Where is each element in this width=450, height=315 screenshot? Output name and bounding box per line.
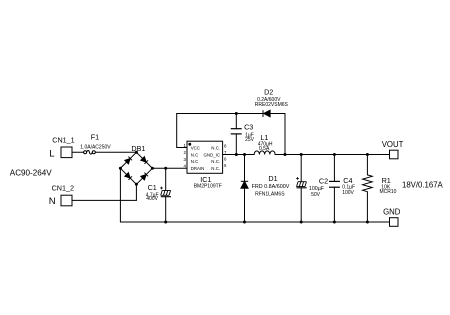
wire D2 anode to right corner [270,113,285,115]
wire C4 top lead [333,155,335,182]
svg-text:C1: C1 [148,183,157,192]
junction C4 top [333,153,336,156]
svg-text:0.5A: 0.5A [259,146,270,152]
capacitor C2 (electrolytic) [297,182,307,188]
inductor L1 [254,151,275,155]
junction R1 top [366,153,369,156]
svg-text:1.0A/AC250V: 1.0A/AC250V [80,144,111,150]
wire DB1 minus: left vertex down [119,168,121,222]
junction VCC / C3 / D2 node [235,112,238,115]
wire L: fuse F1 to DB1 top vertex [95,151,136,153]
C1 plus sign [160,187,163,190]
svg-text:25V: 25V [245,137,255,143]
wire L: CN1_1 to fuse F1 [72,151,84,153]
svg-text:RRE02VSM6S: RRE02VSM6S [255,102,289,108]
svg-text:N: N [49,196,56,207]
svg-text:50V: 50V [311,192,321,198]
junction D1 top [243,153,246,156]
svg-text:VOUT: VOUT [382,140,404,149]
svg-text:CN1_1: CN1_1 [52,135,74,144]
connector GND [390,218,399,227]
diode D1 [241,181,248,188]
svg-text:400V: 400V [146,196,158,202]
junction C1 top [164,167,167,170]
svg-text:100V: 100V [342,190,354,196]
svg-text:N.C.: N.C. [211,146,220,151]
wire ground rail bottom [120,221,389,223]
svg-text:D1: D1 [268,174,277,183]
svg-text:L: L [49,149,54,160]
svg-text:MCR10: MCR10 [380,189,397,195]
DB1 diode top-right [141,157,148,164]
svg-text:CN1_2: CN1_2 [52,184,74,193]
capacitor C3 [231,129,242,134]
svg-text:F1: F1 [91,132,99,141]
junction D2 to output node [284,153,287,156]
svg-text:18V/0.167A: 18V/0.167A [402,181,444,190]
svg-text:RFN1LAM6S: RFN1LAM6S [255,191,285,197]
svg-text:FRD 0.8A/600V: FRD 0.8A/600V [252,184,290,190]
connector CN1_2 [61,195,72,206]
IC U1 box [187,141,223,173]
svg-text:GND_IC: GND_IC [204,153,221,158]
svg-text:N.C.: N.C. [211,159,220,164]
svg-text:C2: C2 [319,176,328,185]
connector CN1_1 [61,147,72,158]
node DB1 top vertex [135,151,138,154]
junction C2 bottom [300,221,303,224]
diode D2 [263,110,270,117]
wire VCC top horizontal to D2 cathode [177,113,263,115]
wire IC1 pin7 GND_IC to L1 left [223,154,255,156]
svg-text:AC90-264V: AC90-264V [10,168,52,177]
junction R1 bottom [366,221,369,224]
junction D1 bottom [243,221,246,224]
DB1 diode left-bottom [125,173,132,180]
svg-text:GND: GND [383,208,401,217]
wire N: CN1_2 to riser [72,199,136,201]
wire N riser to DB1 bottom vertex [135,184,137,200]
junction C3 bottom on switch node [235,153,238,156]
node DB1 right vertex [151,167,154,170]
wire C4 bottom lead [333,187,335,222]
wire IC1 pin1 VCC stub [177,114,187,148]
wire C2 bottom lead [300,188,302,222]
capacitor C4 [329,181,340,187]
connector VOUT [390,150,399,159]
svg-text:C3: C3 [244,123,253,132]
IC1 pin 1 marker dot [188,143,191,146]
svg-text:N.C.: N.C. [211,166,220,171]
junction C4 bottom [333,221,336,224]
wire C1 bottom lead [165,197,167,222]
wire D2 corner down to output node [284,114,286,155]
wire D1 top lead [244,155,246,182]
junction C2 top [300,153,303,156]
wire C1 top lead [165,168,167,190]
bridge rectifier DB1 [120,152,152,184]
wire C3 top lead [235,114,237,129]
junction C1 bottom [164,221,167,224]
wire C2 top lead [300,155,302,182]
wire L1 right to VOUT [275,154,389,156]
svg-text:BM2P109TF: BM2P109TF [194,183,222,189]
capacitor C1 (electrolytic) [161,190,171,196]
svg-text:D2: D2 [264,88,273,97]
resistor R1 [363,175,373,192]
svg-text:N.C: N.C [191,153,199,158]
svg-text:N.C: N.C [191,159,199,164]
svg-text:DB1: DB1 [131,144,145,153]
DB1 diode left-top [125,157,132,164]
wire R1 top lead [366,155,368,175]
node DB1 bottom vertex [135,183,138,186]
C2 plus sign [296,177,299,180]
wire R1 bottom lead [366,192,368,222]
node DB1 left vertex [119,167,122,170]
wire C3 bottom lead [235,134,237,155]
svg-text:VCC: VCC [191,146,200,151]
DB1 diode bottom-right [141,173,148,180]
wire D1 bottom lead [244,188,246,222]
fuse F1 [84,151,96,155]
wire DB1 plus rail to IC1 pin4 DRAIN [152,167,187,169]
svg-text:DRAIN: DRAIN [191,166,205,171]
